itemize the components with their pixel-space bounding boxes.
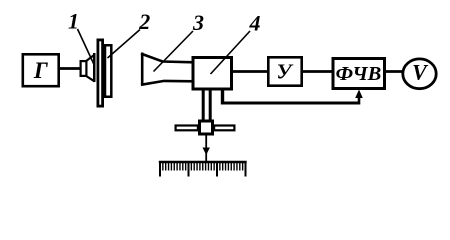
label V (voltmeter)	[412, 59, 429, 84]
horn lower wall	[141, 81, 194, 85]
voltmeter circle V	[403, 59, 436, 89]
label 3	[192, 10, 204, 35]
generator box Г	[23, 54, 59, 86]
arrowhead into ФЧВ	[355, 90, 363, 99]
beam right arm	[214, 126, 234, 131]
beam left arm	[176, 126, 198, 131]
pointer arrowhead	[203, 148, 210, 156]
svg-text:3: 3	[192, 10, 204, 35]
wire box 4 to У	[231, 70, 269, 73]
wire У to ФЧВ	[301, 70, 334, 73]
suspension rod (double line)	[203, 89, 210, 121]
label У (amplifier)	[277, 60, 294, 84]
label 4	[249, 11, 261, 36]
wire Г to loudspeaker driver	[59, 67, 81, 70]
reference feedback wire from box 4 to ФЧВ	[221, 88, 359, 105]
label Г (generator)	[33, 58, 48, 83]
label 1	[68, 9, 79, 34]
leader line 4	[211, 31, 251, 74]
horn mouth line	[141, 53, 144, 86]
pointer line	[205, 134, 207, 161]
svg-text:V: V	[412, 59, 429, 84]
label 2	[138, 9, 150, 34]
balance square	[200, 121, 213, 134]
scale ruler minor ticks	[163, 162, 243, 171]
amplifier box У	[268, 57, 301, 85]
svg-text:У: У	[277, 60, 294, 84]
loudspeaker cone	[86, 53, 94, 82]
svg-text:Г: Г	[33, 58, 48, 83]
baffle plate (tall, item 2)	[98, 40, 103, 106]
label ФЧВ	[336, 63, 382, 85]
leader line 1	[78, 29, 95, 65]
svg-text:ФЧВ: ФЧВ	[336, 63, 382, 85]
sample plate (item 2, right rectangle)	[105, 45, 111, 97]
wire ФЧВ to voltmeter	[384, 70, 404, 73]
leader line 3	[154, 31, 194, 72]
phase-sensitive detector box ФЧВ	[333, 59, 385, 89]
horn upper wall	[141, 54, 194, 63]
loudspeaker driver (1)	[81, 61, 87, 76]
receiver box 4	[193, 58, 232, 90]
scale ruler major ticks	[160, 162, 246, 177]
leader line 2	[108, 30, 141, 59]
scale ruler main line	[159, 161, 247, 163]
